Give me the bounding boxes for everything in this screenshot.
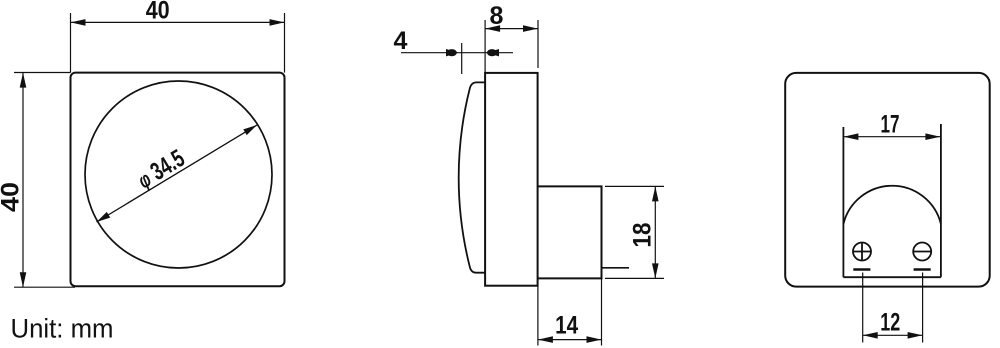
- svg-text:40: 40: [146, 0, 170, 25]
- terminal pin: [602, 267, 630, 269]
- rear rounded square: [785, 73, 990, 287]
- glass bulge: [459, 82, 485, 272]
- bezel rectangle: [485, 73, 537, 286]
- diameter dimension line: [97, 125, 258, 222]
- 12 dimension: [863, 273, 923, 343]
- left screw: [853, 242, 872, 261]
- svg-text:8: 8: [490, 2, 504, 30]
- left 40 dimension: [14, 73, 75, 288]
- svg-text:Unit: mm: Unit: mm: [11, 314, 114, 344]
- right screw: [913, 243, 932, 261]
- 8 dimension: [485, 20, 538, 73]
- svg-text:12: 12: [880, 309, 900, 337]
- front bezel rounded square: [71, 73, 285, 287]
- svg-text:14: 14: [555, 312, 578, 340]
- svg-text:40: 40: [0, 182, 25, 212]
- 18 dimension: [605, 186, 664, 278]
- svg-text:18: 18: [629, 222, 657, 247]
- dial circle: [85, 81, 272, 268]
- 14 dimension: [538, 278, 602, 345]
- 4 dimension: [401, 43, 513, 74]
- svg-text:4: 4: [394, 27, 408, 55]
- rear housing box: [538, 186, 602, 278]
- top 40 dimension: [71, 13, 285, 73]
- terminal blades: [853, 268, 870, 271]
- 17 dimension: [843, 133, 940, 140]
- svg-text:17: 17: [881, 111, 900, 139]
- rear housing tombstone: sides double as 17 extension lines: [843, 124, 941, 277]
